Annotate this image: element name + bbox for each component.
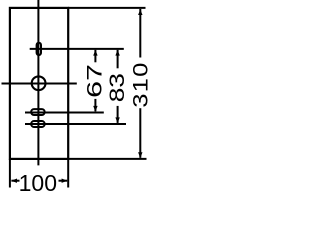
dim 100 stems [11,180,19,182]
arrowhead 67 up [93,50,97,56]
slot1 vertical stadium [37,43,41,55]
left extension line below [9,159,11,188]
slot2 horizontal stadium [31,109,45,115]
svg-text:67: 67 [82,64,106,98]
svg-text:310: 310 [129,61,152,107]
arrowhead 100 right [62,179,68,183]
slot3 horizontal centerline [25,123,126,125]
svg-text:100: 100 [19,170,57,196]
arrowhead 310 down [138,152,142,158]
svg-text:83: 83 [105,73,129,102]
fixture outline rectangle [10,8,68,159]
arrowhead 67 down [93,106,97,112]
dim 67 stems [94,50,96,63]
vertical centerline [37,0,39,165]
top extension line [68,7,146,9]
dim 83 stems [117,50,119,69]
right extension line below [67,159,69,188]
slot3 horizontal stadium [31,121,45,127]
arrowhead 83 up [115,50,119,56]
circle horizontal centerline [2,83,77,85]
slot2 horizontal centerline [25,112,104,114]
dim 310 stems [139,9,141,58]
arrowhead 83 down [115,117,119,123]
mounting circle [32,76,46,90]
arrowhead 310 up [138,9,142,15]
slot1 horizontal centerline [30,48,124,50]
arrowhead 100 left [11,179,17,183]
bottom extension line [68,158,147,160]
